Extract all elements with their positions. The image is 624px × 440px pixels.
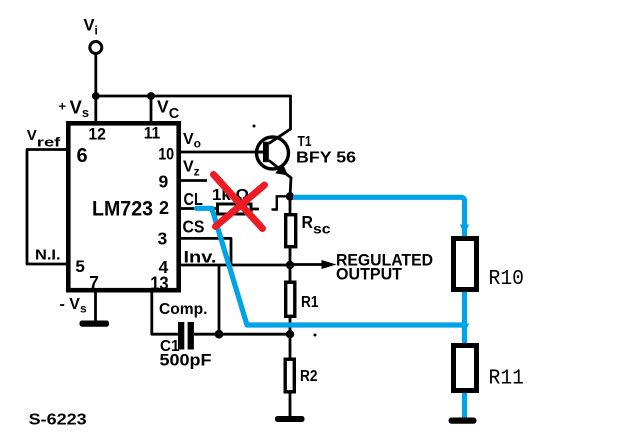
wire main vertical T1 emitter to R2 ground: [289, 197, 292, 418]
label Vref: [27, 127, 61, 150]
wire pin 11 stub: [150, 96, 153, 123]
svg-text:2: 2: [159, 198, 169, 218]
svg-text:7: 7: [89, 272, 99, 292]
svg-text:sc: sc: [313, 222, 331, 237]
svg-text:12: 12: [88, 125, 106, 144]
IC U1 LM723 body: [68, 123, 178, 290]
junction C1 wire at R1/R2: [286, 330, 294, 338]
junction rail at pin 11: [147, 92, 155, 100]
wire pin 12 stub: [94, 96, 97, 123]
label Rsc: [302, 212, 332, 237]
transistor Q1 T1 circle: [257, 137, 289, 169]
svg-text:R1: R1: [301, 294, 319, 311]
wire 1k right lead: [251, 208, 259, 211]
wire Inv branch down to C1 junction: [218, 265, 221, 334]
capacitor C1 plates: [178, 322, 194, 350]
transistor T1 base wire inside: [257, 151, 264, 154]
svg-text:Comp.: Comp.: [159, 301, 208, 318]
label REGULATED OUTPUT: [336, 252, 433, 284]
svg-text:3: 3: [158, 229, 168, 249]
wire blue R11 to ground: [462, 345, 467, 419]
wire blue R10 to R11 junction: [462, 236, 467, 345]
svg-text:BFY 56: BFY 56: [296, 150, 356, 167]
svg-text:+: +: [59, 99, 67, 114]
speck near transistor: [253, 125, 256, 128]
transistor T1 base bar: [263, 142, 269, 162]
ground bar -Vs: [80, 321, 110, 327]
red X cross stroke 2: [216, 185, 265, 227]
svg-text:N.I.: N.I.: [35, 248, 61, 264]
svg-text:R11: R11: [489, 367, 525, 391]
wire pin 10 Vo to T1 base: [178, 151, 264, 154]
svg-text:5: 5: [75, 257, 84, 276]
wire blue CL tap diagonal to R10/R11 junction: [197, 208, 465, 325]
svg-text:10: 10: [158, 145, 174, 164]
wire Vi terminal to +Vs rail: [94, 54, 97, 97]
svg-text:11: 11: [144, 124, 161, 143]
wire pin 13 to C1: [152, 290, 179, 334]
red X cross stroke 1: [214, 175, 263, 229]
wire C1 to R1/R2 node: [194, 333, 290, 336]
wire top supply rail to T1 collector: [96, 96, 291, 144]
svg-text:500pF: 500pF: [160, 351, 212, 370]
speck near R1 node: [314, 334, 317, 337]
resistor R1 body: [286, 282, 295, 316]
svg-text:R2: R2: [300, 368, 318, 385]
junction C1 right: [215, 330, 224, 339]
wire pin 4 Inv to regulated output node: [178, 264, 290, 267]
resistor R11 body: [454, 346, 477, 391]
wire Vref loop pin 6 to pin 5 (N.I.): [27, 150, 68, 265]
label +Vs: [59, 97, 90, 121]
svg-text:CS: CS: [183, 217, 205, 237]
ground bar below R11: [449, 418, 477, 424]
junction rail at pin 12: [92, 92, 100, 100]
svg-text:ref: ref: [37, 135, 61, 150]
junction T1 emitter node: [286, 192, 294, 200]
wire pin 9 Vz stub: [178, 179, 207, 182]
resistor 1k body: [218, 204, 252, 214]
svg-text:S-6223: S-6223: [29, 412, 87, 429]
wire hook step at emitter node: [272, 196, 290, 209]
node Vi input terminal: [84, 17, 102, 54]
transistor T1 emitter arrow: [275, 164, 288, 176]
wire arrow regulated output: [290, 260, 337, 269]
wire pin 7 to ground: [94, 290, 97, 321]
transistor T1 emitter stroke: [269, 160, 291, 196]
svg-text:R: R: [302, 212, 314, 232]
svg-text:6: 6: [77, 145, 88, 167]
resistor Rsc body: [286, 215, 296, 247]
svg-text:V: V: [27, 127, 37, 144]
svg-text:OUTPUT: OUTPUT: [336, 266, 402, 284]
resistor R10 body: [454, 239, 477, 290]
transistor T1 collector stroke: [269, 129, 291, 144]
svg-text:LM723: LM723: [92, 198, 153, 221]
wire pin 2 CL to 1k resistor: [178, 207, 218, 210]
wire blue emitter node to R10 top: [293, 197, 465, 236]
svg-text:R10: R10: [489, 267, 525, 291]
svg-text:9: 9: [159, 172, 169, 192]
ground bar below R2: [275, 416, 305, 422]
blue arrowhead at R10/R11 junction: [460, 324, 469, 334]
blue arrowhead into R10: [460, 225, 469, 235]
resistor R2 body: [285, 359, 294, 392]
svg-text:T1: T1: [298, 134, 312, 150]
wire pin 3 CS jog to output node line: [178, 238, 231, 265]
junction regulated output node: [286, 261, 294, 269]
